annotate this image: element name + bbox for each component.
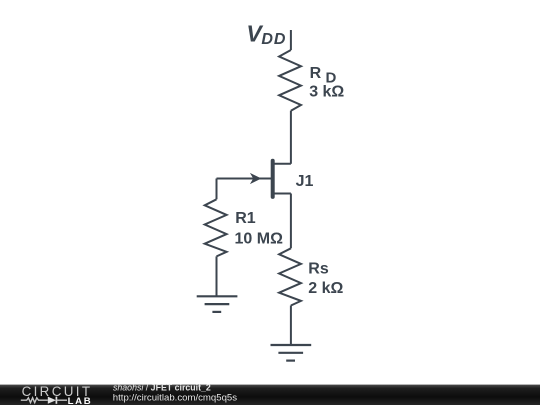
wire R1 to ground: [216, 256, 218, 296]
svg-text:R1: R1: [235, 210, 256, 227]
svg-text:shaohsi / JFET circuit_2: shaohsi / JFET circuit_2: [113, 383, 211, 393]
svg-text:10 MΩ: 10 MΩ: [235, 231, 284, 248]
wire gate to R1: [216, 179, 218, 200]
ground (Rs): [271, 345, 312, 361]
svg-text:Rs: Rs: [308, 261, 329, 278]
transistor J1: [217, 161, 291, 197]
resistor Rs zigzag: [279, 248, 301, 305]
resistor R1 zigzag: [205, 199, 227, 256]
resistor RD zigzag: [279, 50, 301, 111]
svg-text:R: R: [310, 65, 322, 82]
label RD name R_D: [310, 65, 337, 86]
svg-text:DD: DD: [261, 31, 286, 48]
svg-text:J1: J1: [296, 173, 314, 190]
footer title: shaohsi / JFET circuit_2: [113, 383, 237, 404]
svg-text:3 kΩ: 3 kΩ: [309, 84, 344, 101]
wire VDD to RD: [290, 30, 292, 50]
ground (R1): [197, 296, 238, 312]
svg-text:http://circuitlab.com/cmq5q5s: http://circuitlab.com/cmq5q5s: [113, 393, 237, 404]
wire RD to J1 drain: [290, 111, 292, 164]
CircuitLab logo resistor squiggle: [21, 398, 48, 403]
svg-text:2 kΩ: 2 kΩ: [308, 280, 343, 297]
node VDD label: [246, 21, 286, 48]
wire J1 source to Rs: [290, 194, 292, 249]
wire Rs to ground: [290, 306, 292, 346]
footer bar: [0, 385, 540, 405]
CircuitLab logo diode: [48, 397, 67, 404]
svg-text:LAB: LAB: [68, 396, 93, 405]
